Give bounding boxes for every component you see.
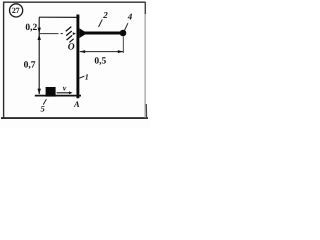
label 2 tick <box>99 20 103 28</box>
svg-text:0,2: 0,2 <box>25 23 37 33</box>
frame right border <box>144 2 146 118</box>
svg-text:5: 5 <box>40 104 45 114</box>
background <box>0 0 150 128</box>
bar 2 horizontal <box>79 32 120 35</box>
svg-text:2: 2 <box>102 10 108 20</box>
frame left border <box>3 2 5 119</box>
velocity arrow <box>57 92 70 94</box>
svg-text:4: 4 <box>127 12 133 22</box>
ground line <box>35 95 81 97</box>
svg-text:A: A <box>73 99 80 109</box>
svg-text:0,7: 0,7 <box>24 60 36 70</box>
ball 4 <box>120 30 127 37</box>
svg-text:27: 27 <box>12 6 20 15</box>
frame bottom border <box>1 117 148 119</box>
svg-text:0,5: 0,5 <box>94 57 106 67</box>
dimension line 0,5 <box>80 51 123 53</box>
problem number circle 27 <box>10 4 23 17</box>
label 4 tick <box>124 23 128 30</box>
label 5 tick <box>43 99 46 104</box>
vertical dimension line <box>38 17 40 94</box>
dimension arrow 0,7 up <box>38 34 41 40</box>
svg-text:O: O <box>68 42 75 52</box>
block 5 <box>46 87 56 97</box>
dimension arrow 0,2 down <box>38 28 41 34</box>
label 1 tick <box>79 76 84 78</box>
top extension line <box>39 16 80 18</box>
ball extension line <box>122 37 124 54</box>
axis line to O <box>39 33 58 35</box>
bar joint gusset <box>79 28 87 38</box>
rod 1 vertical <box>76 15 79 99</box>
svg-text:v: v <box>63 84 67 93</box>
dimension arrow 0,7 down <box>38 89 41 95</box>
axis arrowhead at rod <box>73 32 76 35</box>
frame top border <box>3 1 146 3</box>
pivot hatching at O <box>66 27 72 32</box>
svg-text:1: 1 <box>85 72 89 81</box>
